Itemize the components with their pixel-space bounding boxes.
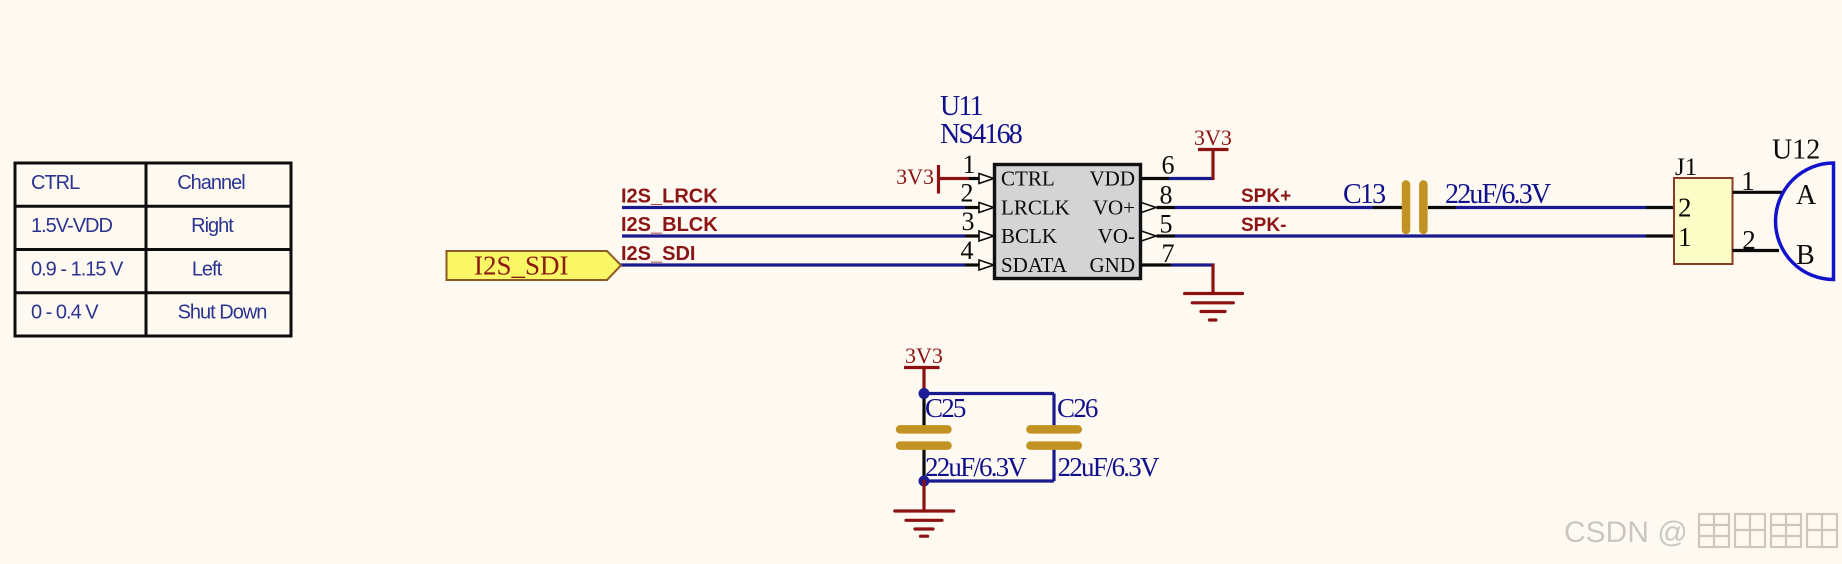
svg-text:SPK-: SPK-: [1241, 215, 1286, 236]
svg-text:VO-: VO-: [1098, 224, 1135, 248]
svg-text:0 - 0.4 V: 0 - 0.4 V: [31, 302, 99, 324]
svg-text:0.9 - 1.15 V: 0.9 - 1.15 V: [31, 258, 124, 280]
svg-text:5: 5: [1160, 210, 1173, 239]
svg-text:I2S_SDI: I2S_SDI: [621, 243, 695, 265]
svg-text:1: 1: [1741, 166, 1755, 196]
svg-text:22uF/6.3V: 22uF/6.3V: [1445, 179, 1551, 210]
svg-text:I2S_LRCK: I2S_LRCK: [621, 186, 718, 208]
svg-text:8: 8: [1160, 181, 1173, 210]
svg-text:Shut Down: Shut Down: [178, 302, 267, 324]
svg-text:U11: U11: [940, 91, 983, 122]
svg-text:1.5V-VDD: 1.5V-VDD: [31, 215, 112, 237]
svg-text:22uF/6.3V: 22uF/6.3V: [925, 452, 1027, 482]
svg-text:1: 1: [963, 150, 976, 179]
svg-text:U12: U12: [1772, 135, 1820, 166]
svg-text:C26: C26: [1057, 393, 1098, 423]
svg-text:2: 2: [1678, 193, 1692, 223]
svg-text:I2S_BLCK: I2S_BLCK: [621, 214, 718, 236]
svg-text:VDD: VDD: [1090, 167, 1136, 191]
svg-text:B: B: [1796, 240, 1815, 271]
svg-text:C13: C13: [1343, 179, 1385, 210]
svg-text:1: 1: [1678, 222, 1692, 252]
svg-text:3V3: 3V3: [905, 343, 943, 368]
svg-text:SDATA: SDATA: [1001, 253, 1068, 277]
svg-text:VO+: VO+: [1093, 196, 1135, 220]
svg-text:NS4168: NS4168: [940, 119, 1022, 150]
svg-text:A: A: [1796, 180, 1817, 211]
svg-text:GND: GND: [1090, 253, 1136, 277]
svg-text:3V3: 3V3: [896, 164, 934, 189]
svg-text:2: 2: [1742, 225, 1756, 255]
svg-text:LRCLK: LRCLK: [1001, 196, 1070, 220]
svg-text:CTRL: CTRL: [1001, 167, 1055, 191]
svg-text:J1: J1: [1675, 154, 1697, 181]
svg-text:C25: C25: [925, 393, 966, 423]
svg-text:Left: Left: [192, 258, 223, 280]
svg-text:Right: Right: [191, 215, 234, 237]
svg-text:BCLK: BCLK: [1001, 224, 1057, 248]
svg-text:CTRL: CTRL: [31, 172, 80, 194]
svg-text:3V3: 3V3: [1194, 125, 1232, 150]
svg-text:4: 4: [961, 236, 974, 265]
svg-text:SPK+: SPK+: [1241, 186, 1291, 207]
svg-text:Channel: Channel: [177, 172, 245, 194]
svg-text:I2S_SDI: I2S_SDI: [474, 251, 569, 281]
svg-text:CSDN @: CSDN @: [1564, 516, 1688, 549]
svg-text:6: 6: [1162, 151, 1175, 180]
svg-text:2: 2: [961, 179, 974, 208]
svg-text:22uF/6.3V: 22uF/6.3V: [1058, 452, 1160, 482]
svg-text:3: 3: [962, 207, 975, 236]
